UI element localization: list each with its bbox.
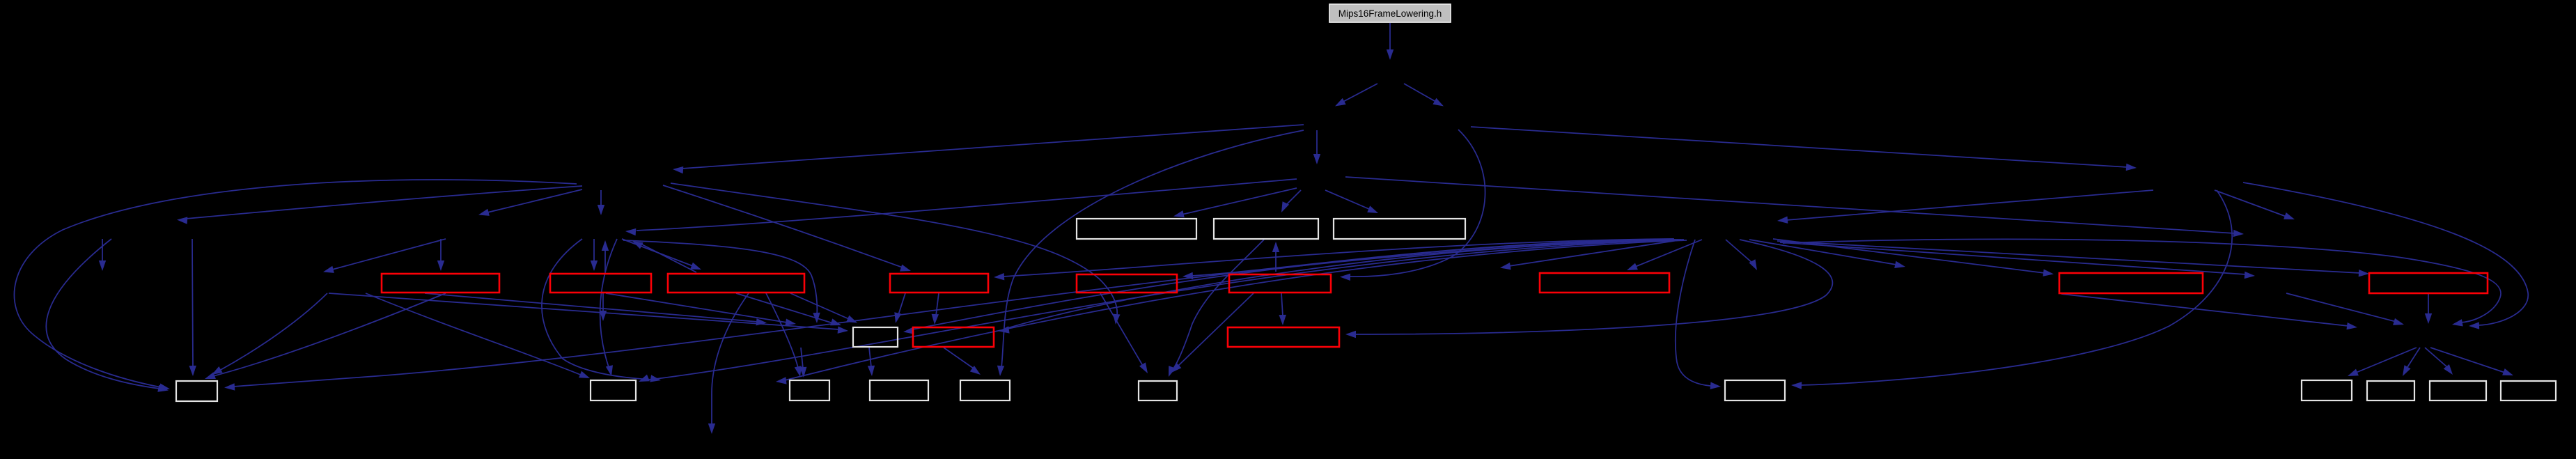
edge nGright to B9 — [2403, 348, 2420, 376]
node R1 (truncated) — [382, 274, 499, 293]
edge nCleft to nDleft — [673, 125, 1304, 173]
edge nDleft to nEleft2 — [478, 189, 582, 216]
node B10 — [2430, 381, 2486, 400]
node W1 — [1077, 219, 1196, 239]
node B3 — [790, 380, 829, 400]
edge nDmid to nEmid — [625, 179, 1297, 235]
edge R1 to B2 — [366, 293, 590, 378]
edge nDright big arc to B7 — [1791, 190, 2232, 389]
edge nEright to W4 — [903, 240, 1676, 334]
edge nEleft2 to nFleft2 — [323, 239, 446, 273]
edge nEright to nFmid2 — [1500, 240, 1683, 270]
node B4 — [870, 380, 928, 400]
node W4 — [853, 327, 898, 347]
edge R1 to B1 — [205, 293, 446, 379]
node B9 — [2367, 381, 2414, 400]
node B2 — [591, 380, 636, 400]
edge nEright loop to RG2 — [1345, 240, 1832, 338]
edge R6 to RG2 — [1279, 293, 1286, 325]
edge top to nB — [1387, 23, 1394, 60]
edge nDleft down to nEmid — [598, 190, 604, 215]
edge nFleft2 to B1 — [212, 293, 327, 375]
edge nEright to R5 — [1182, 239, 1674, 279]
edge nEmid to nH2 arc left — [542, 239, 661, 382]
edge nEright to R4 — [994, 239, 1673, 280]
edge R5 to B6 — [1100, 293, 1148, 373]
node B1 — [176, 381, 217, 401]
edge nFleft2 to W4 — [329, 293, 848, 334]
svg-text:Mips16FrameLowering.h: Mips16FrameLowering.h — [1338, 8, 1442, 19]
edge R3 to nGleft b — [736, 293, 841, 325]
edge nDmid to W2 — [1281, 190, 1301, 212]
edge nCright to nDright — [1471, 127, 2137, 171]
edge nCleft to nDmid — [1313, 130, 1320, 164]
edge nDleft to R4 top — [663, 185, 911, 272]
node B5 — [960, 380, 1010, 400]
node R8 (truncated) — [2059, 273, 2203, 293]
node B11 — [2501, 381, 2556, 400]
edge R3 to bottom arrow — [708, 293, 749, 434]
edge nEmid to R2 — [591, 239, 598, 271]
edge nDleft to nEleft — [177, 186, 582, 224]
edge R6 to B6 — [1171, 293, 1254, 373]
node R3 (truncated) — [668, 274, 804, 293]
edge nEright to RG1 — [999, 240, 1681, 334]
edge nDmid to nEfar — [1345, 177, 2244, 237]
node R2 (truncated) — [550, 274, 651, 293]
edge nDleft big left loop to B1 — [14, 180, 577, 391]
edge W4 to B4 — [868, 348, 875, 376]
node B8 — [2302, 380, 2352, 400]
edge nEright to B2 long — [639, 240, 1684, 382]
edge R3 to W4 b — [790, 293, 857, 323]
node Mips16FrameLowering.h (root) — [1329, 4, 1451, 22]
edge R2 to nG under — [600, 293, 607, 321]
edge nEright to nFmid3 — [1749, 240, 1905, 268]
edge nFright to nGright — [2286, 293, 2404, 325]
edge nEleft vert to B1 — [189, 239, 196, 376]
edge R2 to nGleft — [606, 293, 796, 326]
edge R4 to W4 — [894, 293, 905, 323]
edge nDright to nEright — [1777, 190, 2153, 224]
edge nEright to nFmid — [1726, 240, 1757, 270]
edge nGleft to B3 — [799, 348, 806, 378]
edge nEright to R7 — [1627, 240, 1702, 270]
edge nDright middle swoop to nGright — [2243, 182, 2528, 329]
node B7 — [1725, 380, 1785, 400]
edge nGright to B10 — [2425, 348, 2453, 375]
edge R3 up to nEmid — [632, 241, 696, 272]
edge nEright to R8 — [1773, 239, 2054, 277]
edge nEmid curve around R3 to nGleft — [623, 240, 820, 323]
edge nDright to nEfar — [2215, 190, 2295, 219]
node R6 (truncated) — [1229, 274, 1331, 293]
edge nDmid to W3 — [1325, 190, 1378, 213]
edge nCleft to B5 arc — [997, 130, 1304, 376]
edge nDmid to W1 — [1173, 188, 1297, 217]
node RG2 (truncated) — [1228, 327, 1339, 347]
node RG1 (truncated) — [913, 327, 994, 347]
edge nEleft2 to R1 — [437, 239, 444, 271]
edge R4 to RG1 — [932, 293, 939, 325]
edge nEmid to B2 arc — [600, 239, 617, 376]
node B6 — [1139, 381, 1177, 400]
edge nEleft to nFleft1 — [99, 239, 106, 271]
edge R1 to nGleft — [425, 293, 767, 325]
edge nB to nCleft — [1335, 84, 1377, 107]
edge RG1 to B5 — [944, 348, 981, 375]
edge W2 to B6 arc — [1169, 240, 1264, 377]
edge nEmid to R3 — [622, 239, 701, 270]
edge nEleft inner loop to B1 — [46, 239, 169, 392]
edge R2 up to nEmid — [602, 240, 609, 272]
edge nEright to nFright — [1780, 242, 2255, 279]
node R5 (truncated) — [1077, 274, 1177, 293]
edge R8 to nGright left — [2061, 294, 2357, 329]
edge R3 to B3 — [766, 293, 802, 377]
node R7 (truncated) — [1540, 273, 1669, 293]
node W2 — [1214, 219, 1318, 239]
edge nGright to B8 — [2348, 348, 2417, 376]
edge nEright to B7 arc — [1676, 240, 1721, 389]
edge nDleft to nGmid long spline — [671, 183, 1121, 325]
edge nCright loop to R6 — [1340, 130, 1485, 281]
edge nEright to nH1 long — [776, 240, 1687, 384]
edge R6 up to W2 — [1272, 242, 1279, 272]
node W3 — [1334, 219, 1465, 239]
edge nB to nCright — [1404, 84, 1444, 107]
edge R9 to nGright vert — [2425, 294, 2432, 324]
edge nEright to B1 long — [224, 240, 1678, 391]
edge nEright long swoop to nGright — [1783, 239, 2501, 326]
edge nGright to B11 — [2430, 348, 2513, 375]
node R9 (truncated) — [2369, 273, 2488, 293]
edge nEright to R9 left — [1777, 241, 2369, 277]
node R4 (truncated) — [890, 274, 988, 293]
